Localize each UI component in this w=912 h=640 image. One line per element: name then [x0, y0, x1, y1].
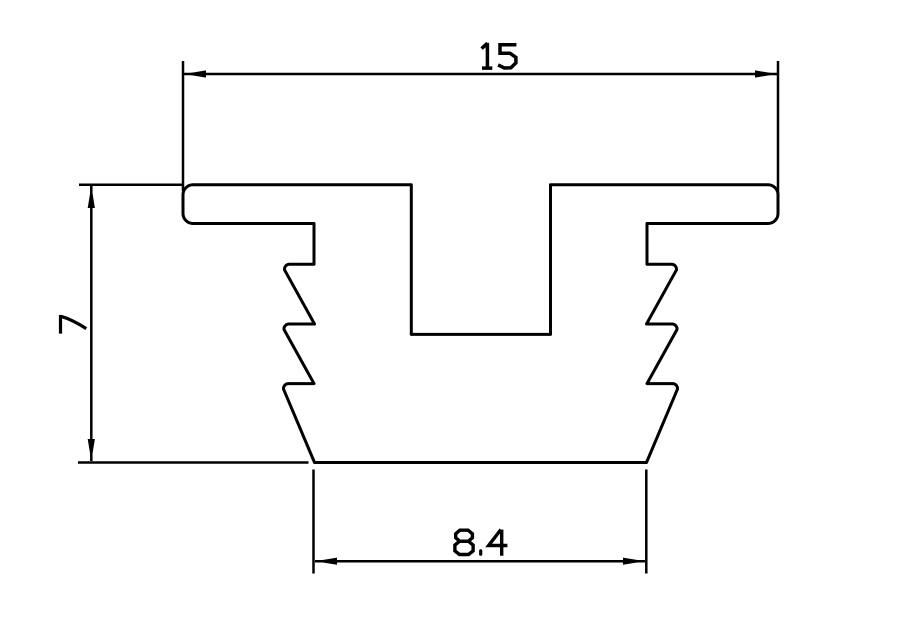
dim 8.4: text label: [455, 530, 508, 556]
dim 15: left arrowhead: [184, 70, 206, 77]
dim 8.4: left extension line: [312, 470, 315, 574]
dim 7: top arrowhead: [88, 186, 95, 208]
dim 15: right arrowhead: [755, 70, 777, 77]
dim 8.4: right extension line: [645, 470, 648, 574]
dim 7: bottom arrowhead: [88, 439, 95, 461]
dim 15: left extension line: [182, 61, 185, 191]
dim 15: text label: [482, 43, 517, 70]
profile outline (T-slot cover cross-section): [183, 185, 778, 463]
dim 7: bottom extension line: [78, 461, 309, 464]
dim 7: dimension line: [90, 186, 93, 461]
dim 7: top extension line: [79, 183, 183, 186]
dim 8.4: right arrowhead: [623, 558, 645, 565]
dim 15: right extension line: [777, 61, 780, 195]
dim 8.4: dimension line: [315, 560, 645, 563]
dim 15: dimension line: [184, 73, 777, 76]
dim 7: text label (rotated): [61, 315, 87, 334]
dim 8.4: left arrowhead: [315, 558, 337, 565]
